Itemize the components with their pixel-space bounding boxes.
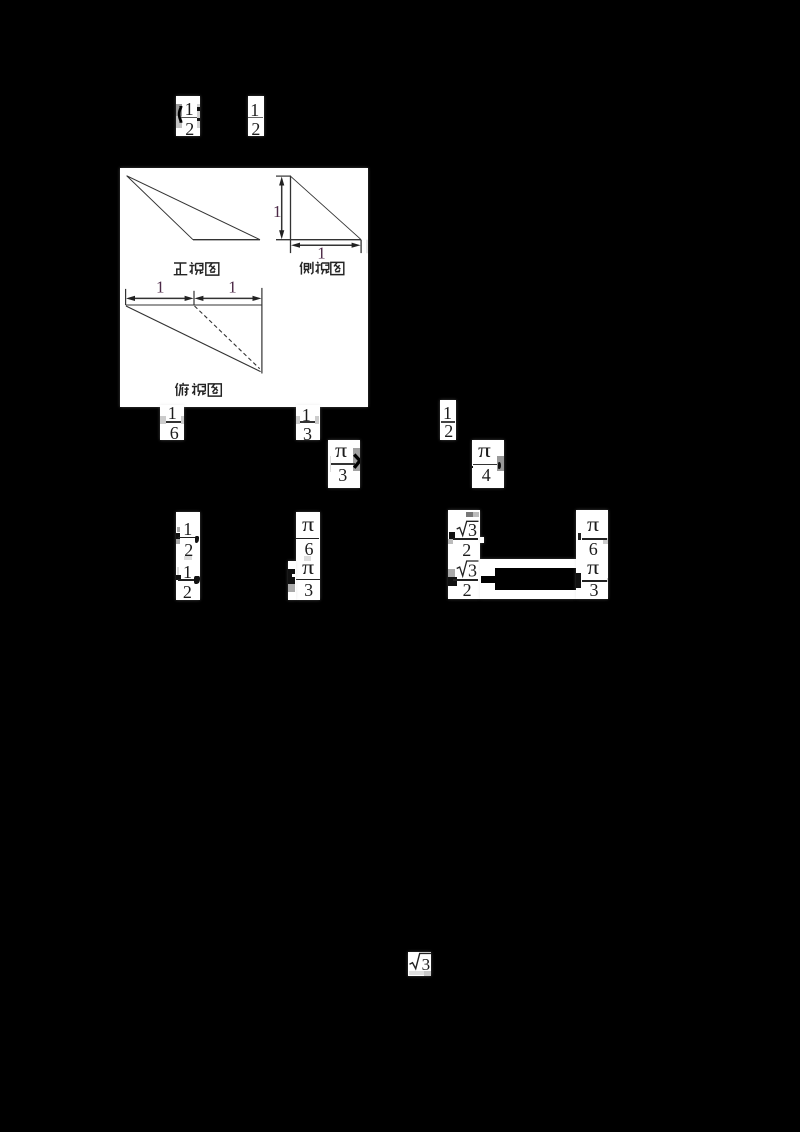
arrowheads side vertical <box>279 176 284 185</box>
fraction pi/3 <box>328 440 360 488</box>
fraction 1/2 (row1 right) <box>440 400 456 440</box>
black tab <box>481 576 496 584</box>
side view triangle <box>290 176 292 253</box>
cluster: stacked 1/2 over 1/2 <box>176 512 200 600</box>
svg-text:3: 3 <box>421 955 430 974</box>
white extension left of pi/3 <box>288 561 296 600</box>
cluster: sqrt3/2 over sqrt3/2 <box>448 510 480 599</box>
top view top edge <box>126 304 262 306</box>
arrowheads top view right span <box>194 296 203 301</box>
svg-text:1: 1 <box>228 277 237 296</box>
fraction box A2 "1/2" <box>248 96 264 136</box>
fraction pi/4 <box>472 440 504 488</box>
front view triangle <box>127 175 260 239</box>
top view dashed diagonal <box>195 306 260 369</box>
arrowheads side horizontal <box>291 242 300 247</box>
arrowheads top view left span <box>126 296 135 301</box>
fraction 1/6 <box>160 405 184 440</box>
top view ticks <box>125 289 127 305</box>
side view vertical dim arrow <box>281 183 283 233</box>
sqrt(3) box near bottom <box>408 952 432 976</box>
fraction box A1 "(1/2)" top left <box>176 96 200 136</box>
side horiz dim arrow <box>297 244 355 246</box>
white tick row A <box>480 537 484 543</box>
svg-text:1: 1 <box>317 243 326 262</box>
dimension labels "1" <box>156 202 326 297</box>
white band row B between sqrt boxes <box>480 559 576 600</box>
label 侧视图 <box>300 262 344 275</box>
cluster: pi/6 over pi/3 (middle) <box>296 512 320 600</box>
svg-text:3: 3 <box>468 561 477 581</box>
side view: top tick <box>276 175 291 177</box>
top view solid diagonal <box>126 306 261 372</box>
top view dim lines <box>131 297 189 299</box>
fraction 1/3 <box>296 405 320 440</box>
big diagram box with three views <box>120 168 368 408</box>
label 俯视图 <box>176 383 222 396</box>
svg-text:1: 1 <box>273 202 282 221</box>
label 正视图 <box>174 262 219 275</box>
svg-text:3: 3 <box>468 520 477 540</box>
black redaction rect <box>495 568 577 591</box>
svg-text:1: 1 <box>156 277 165 296</box>
cluster: pi/6 over pi/3 (right) <box>576 510 609 599</box>
